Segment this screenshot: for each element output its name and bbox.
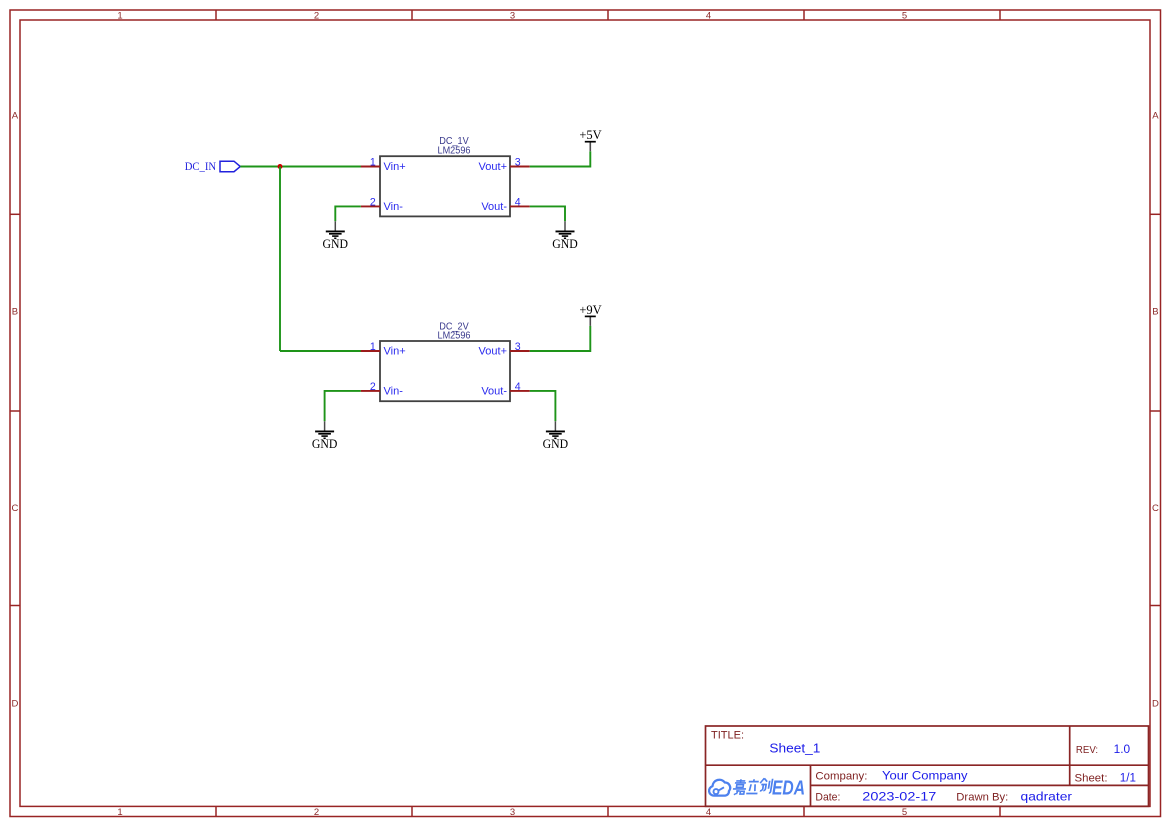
pin 4 Vout- [481,197,529,213]
wire U1 pin3 to +5V [530,151,591,166]
svg-text:1: 1 [370,341,376,353]
wire to U2 pin 1 [280,350,361,352]
logo JLC EDA [709,777,805,799]
logo text 创 (drawn strokes) [759,778,773,793]
ground GND at U2 Vout- [546,421,565,438]
svg-text:4: 4 [706,10,711,21]
wire U1 pin2 to GND [335,206,361,221]
power flag +9V [579,303,601,326]
svg-text:Sheet_1: Sheet_1 [769,740,820,755]
svg-text:3: 3 [510,10,515,21]
svg-text:3: 3 [515,341,521,353]
svg-text:qadrater: qadrater [1021,790,1073,804]
svg-text:2: 2 [370,197,376,209]
ground GND at U1 Vout- [556,221,575,238]
svg-text:2: 2 [314,10,319,21]
svg-text:A: A [1152,110,1159,121]
svg-text:+5V: +5V [579,128,601,142]
cloud icon [709,780,730,796]
IC U1 DC_1V LM2596 [380,136,510,216]
svg-text:DC_IN: DC_IN [185,161,217,173]
svg-text:Vin+: Vin+ [384,161,406,173]
logo text 嘉 (drawn strokes) [732,779,747,794]
wire U1 pin4 to GND [530,206,565,221]
title block labels [711,730,1108,804]
svg-text:B: B [1152,306,1158,317]
wire U2 pin2 to GND [325,391,361,421]
svg-text:Vout-: Vout- [481,201,507,213]
svg-text:1: 1 [117,807,122,818]
svg-text:EDA: EDA [772,777,805,799]
pin 3 Vout+ [479,157,530,173]
svg-text:Drawn By:: Drawn By: [956,792,1008,804]
U2 pin 1 Vin+ [361,341,406,357]
svg-text:GND: GND [323,237,349,251]
svg-text:TITLE:: TITLE: [711,730,744,742]
svg-text:1: 1 [370,157,376,169]
svg-text:4: 4 [706,807,711,818]
svg-text:1/1: 1/1 [1120,770,1136,784]
svg-text:Vout-: Vout- [481,385,507,397]
svg-text:LM2596: LM2596 [438,330,471,341]
svg-text:Vin-: Vin- [384,201,404,213]
svg-text:Sheet:: Sheet: [1075,772,1108,784]
svg-text:1.0: 1.0 [1114,742,1131,756]
svg-text:GND: GND [543,437,569,451]
svg-text:C: C [11,503,18,514]
pin 1 Vin+ [361,157,406,173]
U2 pin 2 Vin- [361,381,403,397]
svg-text:B: B [12,306,18,317]
U2 pin 3 Vout+ [479,341,530,357]
svg-text:1: 1 [117,10,122,21]
svg-text:Date:: Date: [815,792,840,804]
ground GND at U1 Vin- [326,221,345,238]
wire net DC_IN horizontal [240,166,361,168]
title block [706,726,1149,806]
svg-text:2: 2 [314,807,319,818]
svg-text:4: 4 [515,381,521,393]
svg-text:Vin+: Vin+ [384,346,406,358]
svg-text:D: D [11,698,18,709]
title block values [769,740,1136,803]
svg-text:Company:: Company: [815,770,867,782]
ground GND at U2 Vin- [315,421,334,438]
svg-text:2023-02-17: 2023-02-17 [862,790,936,804]
junction [278,164,283,169]
power flag +5V [579,128,601,151]
svg-text:5: 5 [902,10,907,21]
pin 2 Vin- [361,197,403,213]
svg-text:5: 5 [902,807,907,818]
svg-text:Vout+: Vout+ [479,346,507,358]
svg-text:4: 4 [515,197,521,209]
svg-text:C: C [1152,503,1159,514]
svg-text:+9V: +9V [579,303,601,317]
svg-text:Your Company: Your Company [882,768,968,782]
svg-text:GND: GND [312,437,338,451]
wire U2 pin3 to +9V [530,326,591,351]
svg-text:REV:: REV: [1076,744,1098,756]
svg-text:3: 3 [510,807,515,818]
logo text 立 (drawn strokes) [746,779,759,793]
port DC_IN [185,161,241,173]
svg-text:Vout+: Vout+ [479,161,507,173]
svg-text:D: D [1152,698,1159,709]
svg-text:A: A [12,110,19,121]
svg-text:2: 2 [370,381,376,393]
wire U2 pin4 to GND [530,391,556,421]
U2 pin 4 Vout- [481,381,529,397]
svg-text:GND: GND [552,237,578,251]
IC U2 DC_2V LM2596 [380,321,510,401]
svg-text:3: 3 [515,157,521,169]
svg-text:LM2596: LM2596 [438,145,471,156]
svg-text:Vin-: Vin- [384,385,404,397]
wire net DC_IN vertical [279,167,281,352]
